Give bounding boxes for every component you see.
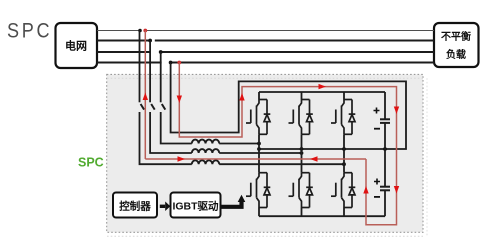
wire: leg3 midpoint vertical (343, 134, 345, 172)
wire: phase line L3 (97, 51, 434, 53)
node: row3 / leg3 (342, 162, 346, 166)
arrow: driver to IGBT gates (thick) (221, 195, 246, 207)
node: L2 tap junction (148, 39, 152, 43)
wire: leg1 emitter stub (258, 208, 260, 217)
capacitor C1 (upper DC link) (374, 92, 391, 149)
switch S1 (141, 104, 145, 110)
arrow: red down on x=179.3 (177, 96, 182, 104)
wire: DC+ top rail (259, 91, 385, 93)
svg-text:SPC: SPC (78, 156, 104, 170)
wire: row 2 to leg 2 midpoint (219, 152, 301, 154)
wire: leg1 midpoint vertical (258, 134, 260, 172)
wire: red injection path - from L4 through bridge loop (179, 63, 396, 225)
capacitor C2 (lower DC link) (374, 149, 390, 216)
arrow: red up on x=242 (239, 93, 244, 101)
svg-text:负载: 负载 (446, 48, 466, 61)
IGBT Q6 (bottom leg 3) with diode (331, 173, 355, 208)
svg-text:控制器: 控制器 (119, 199, 151, 212)
node: neutral / capacitor midpoint (383, 147, 387, 151)
inductor Lb (row 2) (192, 149, 219, 153)
wire: tap 2 lower segment to inductor row 2 (150, 112, 192, 153)
switch S2 (151, 104, 155, 110)
wire: phase line L2 (97, 40, 434, 42)
wire: red injection path - phase 1 return (vertical) (144, 31, 146, 160)
inductor La (row 1) (192, 140, 219, 144)
wire: tap 1 upper segment (139, 31, 141, 103)
wire: red injection path - mid horizontal (145, 158, 366, 160)
wire: DC- bottom rail (259, 215, 385, 217)
controller box 控制器 (113, 193, 157, 218)
wire: leg2 midpoint vertical (301, 134, 303, 172)
svg-text:电网: 电网 (65, 39, 87, 53)
enclosure border ghost (top) (107, 77, 423, 79)
IGBT Q4 (bottom leg 1) with diode (246, 173, 270, 208)
arrow: red up on x=366 (363, 186, 368, 194)
arrow: red down on x=396.5 (upper) (394, 107, 399, 115)
wire: tap 3 upper segment (160, 52, 162, 102)
wire: leg1 collector stub (258, 92, 260, 100)
node: L1 tap junction (138, 29, 142, 33)
svg-text:SPC: SPC (7, 19, 52, 43)
wire: leg2 collector stub (301, 92, 303, 100)
node: neutral / leg2 (300, 147, 304, 151)
arrow: red down on x=396.5 (lower) (394, 186, 399, 194)
node: neutral / leg3 (342, 147, 346, 151)
svg-text:IGBT驱动: IGBT驱动 (172, 199, 219, 212)
IGBT Q1 (top leg 1) with diode (246, 100, 270, 135)
arrow: red up on x=145.3 (143, 93, 148, 101)
wire: leg3 emitter stub (343, 208, 345, 217)
unbalanced load box 不平衡负载 (434, 23, 479, 67)
grid source box 电网 (56, 23, 98, 68)
wire: tap 3 lower segment to inductor row 1 (161, 112, 192, 144)
inductor Lc (row 3) (192, 160, 219, 164)
wire: phase line L4 (97, 62, 434, 64)
wire: neutral line (L4 tap to capacitor midpoint) (171, 63, 406, 150)
switch S3 (162, 104, 166, 110)
IGBT Q2 (top leg 2) with diode (289, 100, 313, 135)
arrow: red right at x=181 (178, 156, 186, 161)
node: L1 red tap junction (143, 29, 147, 33)
arrow: controller to driver (160, 202, 171, 212)
node: row1 / leg1 (257, 142, 261, 146)
wire: leg2 emitter stub (301, 208, 303, 217)
node: L3 tap junction (159, 50, 163, 54)
node: L4 tap junction (169, 61, 173, 65)
enclosure border ghost (right) (426, 78, 428, 236)
node: L4 red tap junction (177, 61, 181, 65)
IGBT Q3 (top leg 3) with diode (331, 100, 355, 135)
wire: tap 1 lower segment to inductor row 3 (140, 112, 192, 164)
wire: row 3 to leg 3 midpoint (219, 163, 344, 165)
wire: leg3 collector stub (343, 92, 345, 100)
svg-text:不平衡: 不平衡 (441, 30, 471, 43)
arrow: red right at x=322 on top run (319, 84, 327, 89)
wire: tap 2 upper segment (149, 41, 151, 103)
node: neutral / leg1 (257, 147, 261, 151)
driver box IGBT驱动 (171, 193, 221, 218)
SPC enclosure (dashed box) (107, 74, 423, 232)
wire: row 1 to leg 1 midpoint (219, 143, 259, 145)
arrow: red left at x=313 (310, 156, 318, 161)
node: row2 / leg2 (300, 151, 304, 155)
IGBT Q5 (bottom leg 2) with diode (289, 173, 313, 208)
wire: phase line L1 (top, thin) (97, 30, 434, 32)
enclosure border ghost (bottom) (107, 235, 423, 237)
